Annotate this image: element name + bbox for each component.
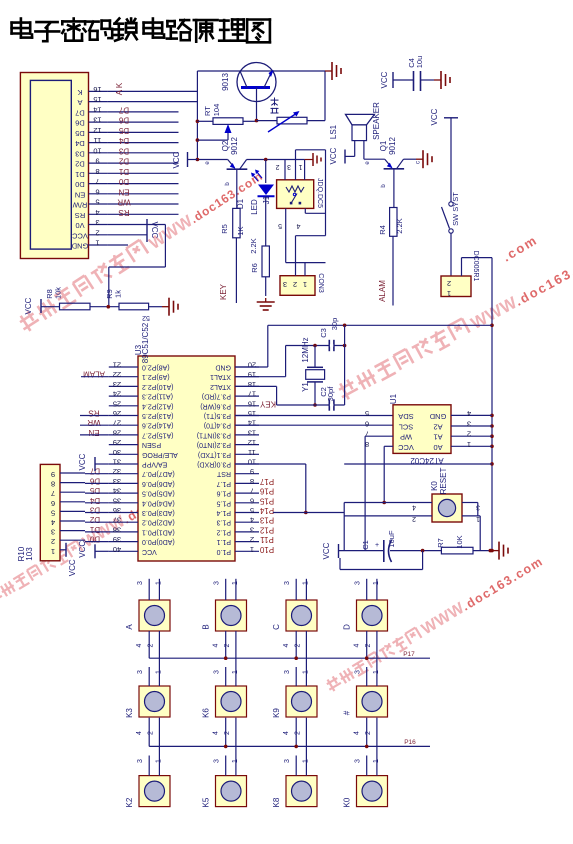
svg-text:17: 17 xyxy=(248,390,256,399)
svg-text:32: 32 xyxy=(113,467,121,476)
svg-text:(AD2)P0.2: (AD2)P0.2 xyxy=(142,519,175,526)
svg-text:3: 3 xyxy=(287,163,291,170)
svg-text:P17: P17 xyxy=(259,477,274,486)
svg-text:D7: D7 xyxy=(75,108,85,117)
svg-text:D4: D4 xyxy=(75,139,85,148)
svg-text:4: 4 xyxy=(95,208,99,217)
svg-text:4: 4 xyxy=(354,731,361,735)
svg-text:2: 2 xyxy=(250,535,254,544)
svg-text:2: 2 xyxy=(447,279,451,288)
svg-text:D7: D7 xyxy=(118,105,129,114)
svg-text:2: 2 xyxy=(275,163,279,170)
svg-text:1: 1 xyxy=(373,581,380,585)
svg-text:8: 8 xyxy=(51,480,55,489)
svg-text:CON3: CON3 xyxy=(317,273,324,293)
svg-text:P13: P13 xyxy=(259,516,274,525)
svg-text:P1.4: P1.4 xyxy=(216,509,231,516)
svg-text:38: 38 xyxy=(113,525,121,534)
svg-text:VCC: VCC xyxy=(24,297,33,314)
svg-text:A2: A2 xyxy=(433,423,442,432)
svg-text:1: 1 xyxy=(302,581,309,585)
svg-text:1: 1 xyxy=(95,239,99,248)
svg-text:D6: D6 xyxy=(75,119,85,128)
svg-text:RS: RS xyxy=(88,409,99,418)
svg-text:RESET: RESET xyxy=(439,468,448,495)
svg-text:2: 2 xyxy=(295,731,302,735)
svg-text:12: 12 xyxy=(93,126,101,135)
svg-text:29: 29 xyxy=(113,438,121,447)
svg-text:1: 1 xyxy=(232,670,239,674)
svg-text:PSEN: PSEN xyxy=(142,441,161,448)
svg-text:6: 6 xyxy=(250,496,254,505)
svg-text:3: 3 xyxy=(250,525,254,534)
svg-text:P10: P10 xyxy=(259,545,274,554)
svg-text:VCC: VCC xyxy=(78,453,87,470)
svg-text:2: 2 xyxy=(295,643,302,647)
svg-text:10uF: 10uF xyxy=(387,530,396,548)
svg-text:D0: D0 xyxy=(75,180,85,189)
svg-text:P16: P16 xyxy=(259,487,274,496)
svg-text:LED: LED xyxy=(250,199,259,215)
svg-text:16: 16 xyxy=(93,85,101,94)
svg-text:10K: 10K xyxy=(455,535,464,548)
svg-text:12MHz: 12MHz xyxy=(301,337,310,362)
svg-text:3: 3 xyxy=(467,420,471,429)
svg-text:U1: U1 xyxy=(389,393,398,404)
svg-text:D0: D0 xyxy=(89,535,100,544)
svg-text:28: 28 xyxy=(113,428,121,437)
svg-text:9: 9 xyxy=(51,470,55,479)
svg-text:D5: D5 xyxy=(75,129,85,138)
svg-text:VCC: VCC xyxy=(322,542,331,559)
svg-text:P15: P15 xyxy=(259,496,274,505)
svg-text:5: 5 xyxy=(95,198,99,207)
svg-text:D2: D2 xyxy=(89,515,100,524)
svg-text:9: 9 xyxy=(95,157,99,166)
svg-text:1: 1 xyxy=(447,289,451,298)
svg-text:VCC: VCC xyxy=(150,222,159,239)
svg-text:10: 10 xyxy=(248,458,256,467)
svg-text:WR: WR xyxy=(87,418,101,427)
svg-text:7: 7 xyxy=(51,489,55,498)
svg-text:5: 5 xyxy=(365,409,369,418)
svg-text:2: 2 xyxy=(293,280,297,289)
svg-text:27: 27 xyxy=(113,419,121,428)
svg-text:VCC: VCC xyxy=(172,151,181,168)
svg-text:10k: 10k xyxy=(54,287,63,299)
svg-text:(A14)P2.6: (A14)P2.6 xyxy=(142,422,174,429)
svg-text:P3.4(T0): P3.4(T0) xyxy=(204,422,231,429)
svg-text:4: 4 xyxy=(136,643,143,647)
svg-text:VCC: VCC xyxy=(72,231,88,240)
svg-text:P3.0(RXD): P3.0(RXD) xyxy=(197,461,231,468)
svg-text:24: 24 xyxy=(113,390,121,399)
svg-text:SPEAKER: SPEAKER xyxy=(372,102,381,140)
svg-text:R7: R7 xyxy=(436,538,445,548)
svg-text:(AD6)P0.6: (AD6)P0.6 xyxy=(142,480,175,487)
svg-text:2: 2 xyxy=(51,537,55,546)
svg-text:6: 6 xyxy=(51,499,55,508)
svg-text:5: 5 xyxy=(278,222,282,229)
svg-text:3: 3 xyxy=(214,759,221,763)
svg-text:A0: A0 xyxy=(433,443,442,452)
svg-text:1K: 1K xyxy=(236,226,245,235)
svg-text:11: 11 xyxy=(94,136,102,145)
svg-text:ALE/PROG: ALE/PROG xyxy=(142,451,178,458)
svg-text:1: 1 xyxy=(373,670,380,674)
svg-text:8: 8 xyxy=(95,167,99,176)
svg-text:4: 4 xyxy=(412,504,416,511)
svg-text:23: 23 xyxy=(113,380,121,389)
svg-text:3: 3 xyxy=(283,280,287,289)
svg-text:VCC: VCC xyxy=(68,559,77,576)
svg-text:15: 15 xyxy=(93,95,101,104)
svg-text:ALAM: ALAM xyxy=(83,370,105,379)
svg-text:3: 3 xyxy=(214,670,221,674)
svg-text:A1: A1 xyxy=(433,433,442,442)
svg-text:1: 1 xyxy=(302,759,309,763)
svg-text:3: 3 xyxy=(51,528,55,537)
svg-text:12: 12 xyxy=(248,438,256,447)
svg-text:R4: R4 xyxy=(378,225,387,235)
svg-text:K6: K6 xyxy=(202,708,211,718)
svg-text:1: 1 xyxy=(373,759,380,763)
svg-text:VCC: VCC xyxy=(78,541,87,558)
svg-text:104: 104 xyxy=(212,104,221,117)
svg-text:(AD7)P0.7: (AD7)P0.7 xyxy=(142,470,175,477)
svg-text:RT: RT xyxy=(203,106,212,116)
svg-text:GND: GND xyxy=(71,242,88,251)
svg-text:P1.7: P1.7 xyxy=(216,480,231,487)
svg-text:4: 4 xyxy=(296,222,300,229)
svg-text:30: 30 xyxy=(113,448,121,457)
svg-text:LS1: LS1 xyxy=(329,124,338,139)
svg-text:VCC: VCC xyxy=(329,147,338,164)
svg-text:6: 6 xyxy=(365,420,369,429)
svg-text:XTAL2: XTAL2 xyxy=(210,383,231,390)
svg-text:10: 10 xyxy=(93,146,101,155)
svg-text:D6: D6 xyxy=(118,116,129,125)
svg-text:4: 4 xyxy=(51,518,55,527)
svg-text:VCC: VCC xyxy=(380,71,389,88)
svg-text:(A10)P2.2: (A10)P2.2 xyxy=(142,383,174,390)
svg-text:D3: D3 xyxy=(118,146,129,155)
svg-text:GND: GND xyxy=(429,412,446,421)
svg-text:1: 1 xyxy=(232,581,239,585)
svg-text:KEY: KEY xyxy=(219,283,228,300)
svg-text:A K: A K xyxy=(115,82,124,95)
svg-text:P3.3(INT1): P3.3(INT1) xyxy=(197,431,231,438)
svg-text:89C51/C52: 89C51/C52 xyxy=(141,322,150,363)
svg-text:(AD1)P0.1: (AD1)P0.1 xyxy=(142,528,175,535)
svg-text:P3.2(INT0): P3.2(INT0) xyxy=(197,441,231,448)
svg-text:103: 103 xyxy=(25,547,34,561)
svg-text:P3.6(WR): P3.6(WR) xyxy=(200,402,231,409)
svg-text:3: 3 xyxy=(137,581,144,585)
svg-text:1: 1 xyxy=(302,670,309,674)
svg-text:VCC: VCC xyxy=(430,108,439,125)
svg-text:3: 3 xyxy=(95,218,99,227)
svg-text:7: 7 xyxy=(95,177,99,186)
svg-text:P11: P11 xyxy=(260,535,274,544)
svg-text:4: 4 xyxy=(213,643,220,647)
svg-text:1: 1 xyxy=(232,759,239,763)
svg-text:(A13)P2.5: (A13)P2.5 xyxy=(142,412,174,419)
svg-text:2.2K: 2.2K xyxy=(395,218,404,233)
svg-text:2: 2 xyxy=(224,731,231,735)
svg-text:4: 4 xyxy=(354,643,361,647)
svg-text:4: 4 xyxy=(213,731,220,735)
svg-text:30p: 30p xyxy=(330,318,339,331)
svg-text:3: 3 xyxy=(355,670,362,674)
svg-text:2: 2 xyxy=(365,643,372,647)
svg-text:19: 19 xyxy=(248,370,256,379)
svg-text:B: B xyxy=(202,624,211,629)
svg-text:1: 1 xyxy=(155,670,162,674)
svg-text:KEY: KEY xyxy=(259,399,276,408)
svg-text:(AD5)P0.5: (AD5)P0.5 xyxy=(142,490,175,497)
svg-text:18: 18 xyxy=(248,380,256,389)
svg-text:13: 13 xyxy=(93,116,101,125)
svg-text:P3.5(T1): P3.5(T1) xyxy=(204,412,231,419)
svg-text:6: 6 xyxy=(95,187,99,196)
svg-text:+: + xyxy=(375,542,379,549)
svg-text:J1: J1 xyxy=(262,195,271,204)
svg-text:D1: D1 xyxy=(118,167,129,176)
svg-text:(A15)P2.7: (A15)P2.7 xyxy=(142,431,174,438)
svg-text:EN: EN xyxy=(75,190,85,199)
svg-text:30pf: 30pf xyxy=(326,386,335,402)
svg-text:14: 14 xyxy=(248,419,256,428)
svg-text:9013: 9013 xyxy=(221,73,230,91)
svg-text:WP: WP xyxy=(400,433,412,442)
svg-text:40: 40 xyxy=(113,545,121,554)
svg-text:C3: C3 xyxy=(319,328,328,338)
svg-text:1: 1 xyxy=(155,759,162,763)
svg-text:(A8)P2.0: (A8)P2.0 xyxy=(142,364,170,371)
svg-text:2: 2 xyxy=(148,731,155,735)
svg-text:Y1: Y1 xyxy=(301,382,310,392)
svg-text:P16: P16 xyxy=(404,739,416,746)
svg-text:K0: K0 xyxy=(343,797,352,807)
svg-text:R6: R6 xyxy=(250,263,259,273)
svg-text:1: 1 xyxy=(467,440,471,449)
svg-text:DC005R1: DC005R1 xyxy=(472,251,479,282)
svg-text:XTAL1: XTAL1 xyxy=(210,373,231,380)
svg-text:P14: P14 xyxy=(259,506,274,515)
svg-text:2: 2 xyxy=(412,515,416,522)
svg-text:RST: RST xyxy=(216,470,231,477)
svg-text:3: 3 xyxy=(284,670,291,674)
svg-text:D1: D1 xyxy=(89,525,100,534)
svg-text:C: C xyxy=(272,624,281,630)
svg-text:D2: D2 xyxy=(118,157,129,166)
svg-text:SW SYST: SW SYST xyxy=(451,192,460,226)
svg-text:P3.7(RD): P3.7(RD) xyxy=(202,393,231,400)
svg-text:39: 39 xyxy=(113,535,121,544)
svg-text:VCC: VCC xyxy=(142,548,157,555)
svg-text:1k: 1k xyxy=(114,290,123,298)
svg-text:c: c xyxy=(416,161,422,164)
svg-text:K3: K3 xyxy=(125,708,134,718)
svg-text:4: 4 xyxy=(136,731,143,735)
svg-text:14: 14 xyxy=(93,105,101,114)
svg-text:1: 1 xyxy=(51,547,55,556)
svg-text:(AD3)P0.3: (AD3)P0.3 xyxy=(142,509,175,516)
svg-text:GND: GND xyxy=(215,364,231,371)
svg-text:D4: D4 xyxy=(89,496,100,505)
svg-text:(A9)P2.1: (A9)P2.1 xyxy=(142,373,170,380)
svg-text:31: 31 xyxy=(113,458,121,467)
svg-text:1: 1 xyxy=(303,280,307,289)
svg-text:2: 2 xyxy=(224,643,231,647)
svg-text:JDQ.DC5: JDQ.DC5 xyxy=(316,178,323,208)
svg-text:16: 16 xyxy=(248,399,256,408)
svg-text:VCC: VCC xyxy=(398,443,414,452)
svg-text:P1.2: P1.2 xyxy=(216,528,231,535)
svg-text:K9: K9 xyxy=(272,708,281,718)
svg-text:4: 4 xyxy=(467,409,471,418)
svg-text:20: 20 xyxy=(248,361,256,370)
svg-text:3: 3 xyxy=(214,581,221,585)
svg-text:2: 2 xyxy=(467,430,471,439)
svg-text:#: # xyxy=(343,710,352,715)
svg-text:2: 2 xyxy=(148,643,155,647)
svg-text:4: 4 xyxy=(283,643,290,647)
svg-text:(AD4)P0.4: (AD4)P0.4 xyxy=(142,499,175,506)
svg-text:7: 7 xyxy=(250,487,254,496)
svg-text:D4: D4 xyxy=(118,136,129,145)
svg-text:C1: C1 xyxy=(361,540,370,550)
svg-text:8: 8 xyxy=(250,477,254,486)
svg-text:(A12)P2.4: (A12)P2.4 xyxy=(142,402,174,409)
svg-text:D5: D5 xyxy=(89,486,100,495)
svg-text:1: 1 xyxy=(155,581,162,585)
svg-text:34: 34 xyxy=(113,487,121,496)
svg-text:K2: K2 xyxy=(125,797,134,807)
svg-text:EN: EN xyxy=(118,187,129,196)
svg-text:3: 3 xyxy=(284,759,291,763)
svg-text:EA/VPP: EA/VPP xyxy=(142,461,168,468)
svg-text:3: 3 xyxy=(284,581,291,585)
svg-text:2: 2 xyxy=(365,731,372,735)
svg-text:52: 52 xyxy=(142,314,150,321)
svg-text:K8: K8 xyxy=(272,797,281,807)
svg-text:V0: V0 xyxy=(75,221,84,230)
svg-text:P1.5: P1.5 xyxy=(216,499,231,506)
svg-text:2: 2 xyxy=(95,228,99,237)
svg-text:ALAM: ALAM xyxy=(378,280,387,302)
svg-text:K0: K0 xyxy=(430,481,439,491)
svg-text:13: 13 xyxy=(248,428,256,437)
svg-text:D3: D3 xyxy=(89,506,100,515)
svg-text:WR: WR xyxy=(117,198,131,207)
svg-text:2.2K: 2.2K xyxy=(249,238,258,253)
svg-text:(AD0)P0.0: (AD0)P0.0 xyxy=(142,538,175,545)
svg-text:9012: 9012 xyxy=(388,137,397,155)
svg-text:P12: P12 xyxy=(259,525,274,534)
svg-text:AT24C02: AT24C02 xyxy=(410,456,444,465)
svg-text:3: 3 xyxy=(137,670,144,674)
svg-text:P1.3: P1.3 xyxy=(216,519,231,526)
svg-text:9: 9 xyxy=(250,467,254,476)
svg-text:RS: RS xyxy=(75,211,85,220)
svg-text:D6: D6 xyxy=(89,476,100,485)
svg-text:A: A xyxy=(77,98,82,107)
svg-text:P1.1: P1.1 xyxy=(216,538,231,545)
svg-text:P3.1(TXD): P3.1(TXD) xyxy=(198,451,231,458)
svg-text:3: 3 xyxy=(355,759,362,763)
svg-text:D0: D0 xyxy=(118,177,129,186)
svg-text:9012: 9012 xyxy=(230,137,239,155)
svg-text:R5: R5 xyxy=(220,224,229,234)
svg-text:P1.0: P1.0 xyxy=(216,548,231,555)
svg-text:D2: D2 xyxy=(75,160,85,169)
svg-text:5: 5 xyxy=(51,508,55,517)
svg-text:5: 5 xyxy=(250,506,254,515)
svg-text:SCL: SCL xyxy=(399,423,414,432)
svg-text:37: 37 xyxy=(113,516,121,525)
svg-text:26: 26 xyxy=(113,409,121,418)
svg-text:10u: 10u xyxy=(415,56,424,69)
svg-text:EN: EN xyxy=(88,428,99,437)
svg-text:Q2: Q2 xyxy=(221,140,230,151)
svg-text:A: A xyxy=(125,624,134,630)
svg-text:(A11)P2.3: (A11)P2.3 xyxy=(142,393,173,400)
svg-text:D: D xyxy=(343,624,352,630)
svg-text:D1: D1 xyxy=(75,170,85,179)
svg-text:36: 36 xyxy=(113,506,121,515)
svg-text:1: 1 xyxy=(250,545,254,554)
svg-text:25: 25 xyxy=(113,399,121,408)
svg-text:D5: D5 xyxy=(118,126,129,135)
svg-text:RS: RS xyxy=(118,208,129,217)
svg-text:22: 22 xyxy=(113,370,121,379)
svg-text:33: 33 xyxy=(113,477,121,486)
svg-text:R/W: R/W xyxy=(72,201,88,210)
svg-text:4: 4 xyxy=(283,731,290,735)
svg-text:3: 3 xyxy=(355,581,362,585)
svg-text:K5: K5 xyxy=(202,797,211,807)
svg-text:3: 3 xyxy=(137,759,144,763)
svg-text:35: 35 xyxy=(113,496,121,505)
svg-text:P17: P17 xyxy=(403,651,415,658)
svg-text:4: 4 xyxy=(250,516,254,525)
svg-text:K: K xyxy=(77,88,82,97)
svg-text:Q1: Q1 xyxy=(379,140,388,151)
svg-text:15: 15 xyxy=(248,409,256,418)
svg-text:P1.6: P1.6 xyxy=(216,490,231,497)
svg-text:D3: D3 xyxy=(75,149,85,158)
svg-text:11: 11 xyxy=(248,448,256,457)
svg-text:SDA: SDA xyxy=(398,412,413,421)
svg-text:1: 1 xyxy=(298,163,302,170)
svg-text:21: 21 xyxy=(113,361,121,370)
